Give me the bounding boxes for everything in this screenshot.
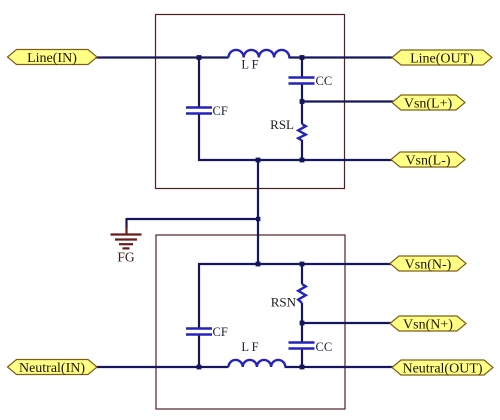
wire CC lower bottom lead bbox=[301, 349, 303, 369]
node LF/CC/Line(OUT) bbox=[300, 55, 305, 60]
wire CF upper column bottom bbox=[198, 114, 200, 162]
inductor LF (lower) bbox=[229, 360, 286, 367]
svg-text:FG: FG bbox=[117, 250, 135, 265]
capacitor CF (upper) bbox=[186, 108, 212, 114]
capacitor CF (lower) bbox=[186, 329, 212, 335]
wire Line(IN) to LF bbox=[96, 56, 229, 58]
wire LF to Line(OUT) bbox=[289, 56, 394, 58]
capacitor CC (lower) bbox=[289, 343, 315, 349]
port Vsn(L+) bbox=[392, 95, 465, 112]
svg-text:RSN: RSN bbox=[271, 295, 297, 310]
sheet symbol box (bottom filter section) bbox=[156, 235, 345, 409]
svg-text:Neutral(IN): Neutral(IN) bbox=[19, 361, 85, 376]
node RSL bottom bbox=[300, 158, 305, 163]
svg-text:Vsn(N+): Vsn(N+) bbox=[403, 318, 453, 333]
wire CC upper top lead bbox=[301, 58, 303, 78]
svg-text:Vsn(N-): Vsn(N-) bbox=[405, 258, 452, 273]
svg-text:Line(OUT): Line(OUT) bbox=[410, 52, 474, 67]
port Neutral(IN) bbox=[8, 360, 98, 377]
svg-text:Vsn(L-): Vsn(L-) bbox=[405, 154, 450, 169]
svg-text:CC: CC bbox=[316, 340, 333, 354]
svg-text:CF: CF bbox=[213, 104, 228, 118]
port Vsn(L-) bbox=[391, 152, 465, 169]
node CF lower / neutral rail bbox=[197, 365, 202, 370]
wire FG branch vertical bbox=[125, 218, 127, 228]
port Vsn(N-) bbox=[390, 256, 466, 273]
svg-text:CC: CC bbox=[316, 74, 333, 88]
wire RSN top lead bbox=[301, 264, 303, 284]
wire LF lower to Neutral(OUT) bbox=[285, 366, 394, 368]
svg-text:CF: CF bbox=[213, 325, 228, 339]
wire Vsn(L+) bbox=[302, 100, 393, 102]
svg-text:Neutral(OUT): Neutral(OUT) bbox=[402, 362, 482, 377]
ground FG symbol bbox=[111, 226, 142, 248]
port Line(IN) bbox=[8, 50, 98, 67]
inductor LF (upper) bbox=[229, 50, 290, 58]
node Line(IN)/CF bbox=[197, 55, 202, 60]
wire CF upper column top bbox=[198, 58, 200, 108]
wire CF lower column top bbox=[198, 264, 200, 328]
svg-text:Vsn(L+): Vsn(L+) bbox=[404, 97, 453, 112]
port Neutral(OUT) bbox=[392, 360, 493, 377]
node RSN top bbox=[300, 262, 305, 267]
wire RSN to Vsn(N+) junction bbox=[301, 303, 303, 342]
node CC/RSL/Vsn(L+) bbox=[300, 99, 305, 104]
wire vertical connector between sections bbox=[257, 160, 259, 264]
node RSN/CC/Vsn(N+) bbox=[300, 321, 305, 326]
svg-text:L F: L F bbox=[241, 58, 258, 72]
node FG tee bbox=[256, 217, 260, 221]
junction dots bbox=[197, 55, 305, 369]
wire FG branch horizontal bbox=[127, 218, 259, 220]
port Vsn(N+) bbox=[390, 316, 466, 333]
resistor RSL bbox=[298, 124, 306, 141]
sheet symbol box (top filter section) bbox=[156, 15, 345, 189]
wire CC upper to RSL bbox=[301, 84, 303, 125]
port Line(OUT) bbox=[392, 50, 492, 67]
svg-text:RSL: RSL bbox=[270, 117, 294, 132]
svg-text:L F: L F bbox=[241, 340, 258, 354]
node CC lower / neutral rail bbox=[300, 365, 305, 370]
node lower top rail / connector bbox=[256, 262, 261, 267]
wire upper bottom rail to Vsn(L-) bbox=[198, 159, 392, 161]
wire CF lower column bottom bbox=[198, 335, 200, 369]
node bottom rail / connector bbox=[256, 158, 261, 163]
svg-text:Line(IN): Line(IN) bbox=[27, 51, 77, 66]
capacitor CC (upper) bbox=[289, 78, 315, 84]
resistor RSN bbox=[298, 284, 306, 303]
wire Neutral(IN) to LF lower bbox=[96, 366, 229, 368]
wire lower top rail to Vsn(N-) bbox=[198, 263, 391, 265]
wire RSL bottom lead bbox=[301, 140, 303, 161]
wire Vsn(N+) bbox=[302, 322, 391, 324]
